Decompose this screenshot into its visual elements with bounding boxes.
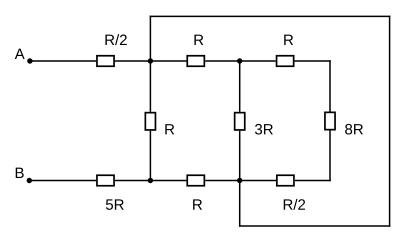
wire R bottom to node 1 bottom bbox=[150, 180, 186, 182]
resistor R/2 (bottom right) bbox=[277, 175, 294, 186]
resistor R (top middle) bbox=[187, 56, 204, 67]
node A terminal dot bbox=[27, 58, 32, 63]
resistor 8R (vertical right) bbox=[325, 112, 335, 129]
node B terminal dot bbox=[27, 178, 32, 183]
value label R/2 (top left) bbox=[105, 34, 126, 45]
resistor R (bottom middle) bbox=[187, 175, 204, 186]
wire R top right to corner bbox=[295, 60, 331, 62]
wire R to node 2 top bbox=[205, 60, 240, 62]
wire corner to R/2 bottom bbox=[295, 180, 331, 182]
wire R vertical to node 1 bottom bbox=[149, 131, 151, 181]
wire node 1 to R (top middle) bbox=[150, 60, 186, 62]
wire node 2 top to 3R bbox=[239, 61, 241, 112]
wire node 1 up to top rail bbox=[149, 16, 151, 61]
value label R (vertical) bbox=[165, 124, 174, 134]
wire 3R to node 2 bottom bbox=[239, 131, 241, 181]
value label R (bottom) bbox=[193, 199, 202, 209]
wire 8R to corner bottom bbox=[329, 131, 331, 182]
wire corner down to 8R bbox=[329, 60, 331, 111]
node B label bbox=[16, 168, 24, 178]
value label 8R bbox=[345, 124, 363, 135]
wire right rail bbox=[389, 16, 391, 227]
junction node 2 bottom bbox=[237, 178, 242, 183]
wire node 2 bottom to R bottom bbox=[205, 180, 239, 182]
wire top rail bbox=[150, 15, 391, 17]
wire node 1 top to R vertical bbox=[149, 61, 151, 112]
resistor R (vertical left) bbox=[145, 113, 155, 130]
value label R/2 (bottom) bbox=[284, 199, 305, 210]
node A label bbox=[15, 49, 25, 59]
wire node 1 bottom to 5R bbox=[115, 180, 150, 182]
resistor 5R (bottom left) bbox=[97, 175, 114, 186]
wire node 2 down to bottom rail bbox=[239, 181, 241, 227]
value label R (top right) bbox=[284, 35, 293, 45]
wire bottom rail bbox=[239, 225, 390, 227]
junction node 2 top bbox=[237, 58, 242, 63]
resistor 3R (vertical middle) bbox=[235, 113, 245, 130]
wire node 2 to R (top right) bbox=[240, 60, 276, 62]
wire A terminal to R/2 bbox=[30, 60, 96, 62]
value label R (top middle) bbox=[194, 35, 203, 45]
wire R/2 bottom to node 2 bottom bbox=[240, 180, 276, 182]
resistor R/2 (top left) bbox=[97, 56, 114, 67]
wire 5R to B terminal bbox=[29, 180, 96, 182]
junction node 1 top bbox=[148, 58, 153, 63]
wire R/2 to node 1 bbox=[115, 60, 150, 62]
junction node 1 bottom bbox=[148, 178, 153, 183]
value label 5R bbox=[106, 199, 124, 209]
value label 3R bbox=[255, 124, 273, 135]
resistor R (top right) bbox=[277, 56, 294, 67]
